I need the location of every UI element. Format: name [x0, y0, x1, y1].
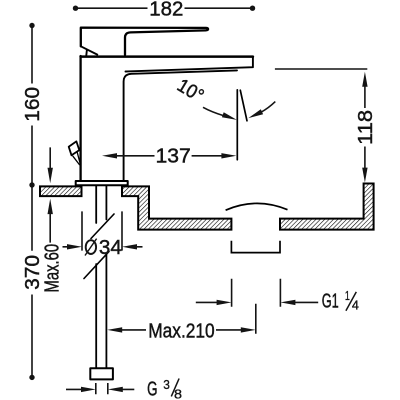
- svg-text:118: 118: [355, 110, 377, 145]
- svg-text:1: 1: [345, 288, 350, 303]
- svg-text:G1: G1: [322, 291, 339, 313]
- svg-text:34: 34: [99, 237, 122, 259]
- svg-text:137: 137: [156, 146, 191, 168]
- svg-text:Max.60: Max.60: [42, 244, 64, 293]
- svg-text:3: 3: [163, 377, 170, 392]
- svg-text:4: 4: [352, 298, 359, 313]
- svg-text:G: G: [147, 379, 157, 400]
- svg-text:182: 182: [149, 0, 183, 20]
- svg-text:160: 160: [22, 87, 44, 122]
- svg-text:Max.210: Max.210: [148, 320, 215, 342]
